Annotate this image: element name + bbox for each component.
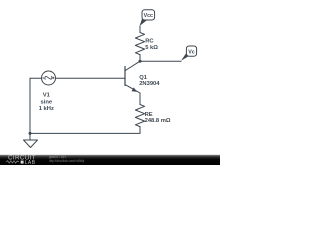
svg-text:1 kHz: 1 kHz <box>39 106 54 112</box>
svg-text:Vcc: Vcc <box>144 13 153 19</box>
svg-text:RE: RE <box>145 112 153 118</box>
svg-text:LAB: LAB <box>25 160 36 165</box>
svg-text:Q1: Q1 <box>139 75 148 81</box>
svg-text:sine: sine <box>40 99 52 105</box>
svg-text:Vc: Vc <box>188 50 195 56</box>
svg-text:248.8 mΩ: 248.8 mΩ <box>145 118 171 124</box>
svg-text:5 kΩ: 5 kΩ <box>145 45 158 51</box>
svg-text:2N3904: 2N3904 <box>139 81 160 87</box>
svg-text:V1: V1 <box>43 92 51 98</box>
svg-text:http://circuitlab.com/c/v8b6jr: http://circuitlab.com/c/v8b6jr <box>49 159 85 163</box>
svg-text:RC: RC <box>145 39 154 45</box>
